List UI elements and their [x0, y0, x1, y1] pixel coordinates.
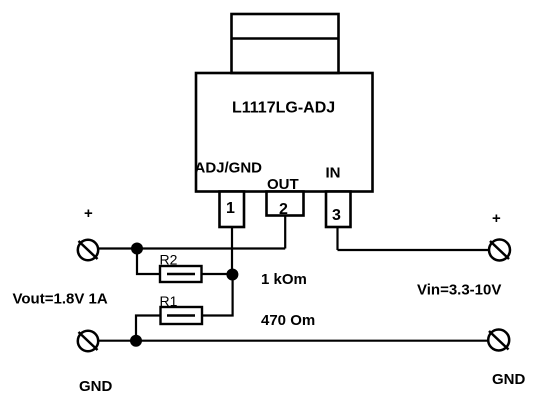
wire R1 left to ground node — [136, 316, 161, 341]
pin 1 box — [220, 192, 245, 228]
wire node B down to R1 — [202, 274, 233, 316]
wire R2 right to node B — [202, 273, 233, 275]
regulator U1 tab — [232, 14, 339, 73]
svg-text:1: 1 — [226, 200, 235, 217]
terminal GND right — [488, 330, 509, 351]
pin 3 box — [326, 192, 351, 228]
resistor R2 — [160, 266, 202, 282]
svg-text:ADJ/GND: ADJ/GND — [195, 160, 263, 177]
svg-text:Vin=3.3-10V: Vin=3.3-10V — [417, 282, 501, 299]
svg-text:470 Om: 470 Om — [261, 312, 315, 329]
svg-text:2: 2 — [279, 201, 288, 218]
svg-text:GND: GND — [79, 378, 113, 395]
resistor R1 — [161, 307, 203, 324]
terminal Vin+ — [489, 240, 510, 261]
wire pin3 to Vin terminal — [338, 249, 490, 251]
svg-text:+: + — [492, 210, 501, 227]
wire ground bus — [98, 340, 489, 342]
regulator U1 body — [196, 73, 373, 192]
svg-text:GND: GND — [492, 371, 526, 388]
wire pin1 to adjust node — [231, 227, 233, 274]
svg-text:+: + — [84, 205, 93, 222]
svg-text:3: 3 — [332, 207, 341, 224]
wire pin2 down — [284, 216, 286, 249]
terminal Vout+ — [78, 240, 98, 260]
wire node A down to R2 — [137, 249, 160, 275]
svg-text:IN: IN — [326, 165, 341, 182]
svg-text:L1117LG-ADJ: L1117LG-ADJ — [232, 100, 335, 117]
svg-text:Vout=1.8V 1A: Vout=1.8V 1A — [13, 291, 108, 308]
wire pin3 down — [336, 227, 338, 250]
svg-text:1 kOm: 1 kOm — [261, 271, 307, 288]
junction node B (ADJ) — [226, 269, 238, 281]
pin 2 box — [267, 192, 304, 216]
junction node C (GND) — [130, 335, 142, 347]
regulator U1 tab divider line — [232, 37, 339, 40]
terminal GND left — [78, 331, 98, 351]
wire Vout horizontal — [98, 247, 285, 249]
junction node A (Vout/R2) — [131, 243, 143, 255]
